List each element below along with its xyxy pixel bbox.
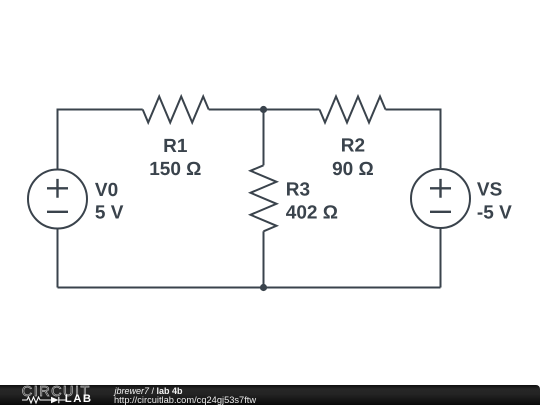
- svg-text:-5 V: -5 V: [477, 202, 512, 223]
- VS minus sign: [430, 211, 451, 213]
- svg-text:402 Ω: 402 Ω: [286, 202, 338, 223]
- CircuitLab logo squiggle (resistor + diode): [22, 396, 66, 405]
- svg-text:V0: V0: [95, 180, 118, 201]
- bottom rail wire: [58, 287, 441, 289]
- voltage source VS body: [411, 169, 470, 228]
- footer title text: [115, 386, 183, 396]
- VS plus sign: [430, 179, 451, 198]
- svg-text:5 V: 5 V: [95, 202, 124, 223]
- CircuitLab logo word LAB: [65, 394, 93, 404]
- resistor R1: [143, 97, 209, 123]
- wire node A down to R3: [263, 110, 265, 166]
- node A junction dot: [260, 106, 267, 113]
- resistor R3: [251, 165, 277, 231]
- wire V0 bottom to bottom rail: [57, 229, 59, 288]
- voltage source V0 body: [28, 170, 87, 229]
- wire R2 to VS top: [386, 110, 441, 170]
- footer bar: [0, 385, 540, 405]
- svg-text:90 Ω: 90 Ω: [332, 159, 374, 180]
- svg-text:VS: VS: [477, 180, 502, 201]
- svg-text:R1: R1: [163, 136, 188, 157]
- V0 minus sign: [47, 211, 68, 213]
- wire VS bottom to bottom rail: [440, 228, 442, 288]
- svg-text:150 Ω: 150 Ω: [149, 159, 201, 180]
- V0 plus sign: [47, 179, 68, 198]
- svg-text:R3: R3: [286, 180, 310, 201]
- wire top-left (V0 top to R1): [58, 110, 143, 170]
- wire R3 to bottom node B: [263, 231, 265, 287]
- node B junction dot: [260, 284, 267, 291]
- footer url text: [114, 395, 256, 405]
- resistor R2: [320, 97, 386, 123]
- wire R1 to R2 (through node A): [209, 109, 320, 111]
- CircuitLab logo word CIRCUIT: [22, 386, 91, 398]
- svg-text:R2: R2: [341, 136, 365, 157]
